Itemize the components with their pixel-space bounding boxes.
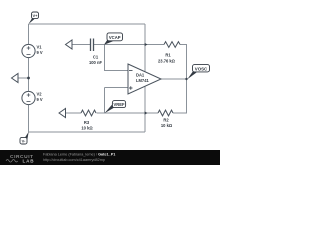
svg-text:V+: V+ — [32, 13, 38, 18]
svg-text:VOSC: VOSC — [195, 66, 208, 71]
svg-text:R3: R3 — [84, 120, 90, 125]
svg-text:V1: V1 — [37, 44, 43, 49]
svg-text:9 V: 9 V — [37, 50, 43, 55]
svg-text:V2: V2 — [37, 91, 43, 96]
svg-text:Fabiana Leme (Fabiana_leme) /: Fabiana Leme (Fabiana_leme) / Gate1_P1 — [43, 153, 115, 157]
svg-text:V-: V- — [22, 138, 26, 143]
svg-text:LAB: LAB — [23, 159, 35, 164]
svg-text:C1: C1 — [93, 55, 99, 60]
svg-text:23.76 kΩ: 23.76 kΩ — [158, 58, 176, 63]
svg-text:http://circuitlab.com/c41aamry: http://circuitlab.com/c41aamryd82mp — [43, 158, 105, 162]
svg-text:10 kΩ: 10 kΩ — [81, 126, 93, 131]
svg-text:100 nF: 100 nF — [89, 60, 102, 65]
svg-text:10 kΩ: 10 kΩ — [161, 123, 173, 128]
svg-text:LM741: LM741 — [136, 78, 149, 83]
svg-text:9 V: 9 V — [37, 97, 43, 102]
svg-text:DA1: DA1 — [136, 73, 145, 78]
svg-text:VCAP: VCAP — [109, 35, 121, 40]
svg-text:R2: R2 — [163, 118, 169, 123]
svg-text:VREF: VREF — [114, 102, 125, 107]
svg-text:R1: R1 — [165, 52, 171, 57]
